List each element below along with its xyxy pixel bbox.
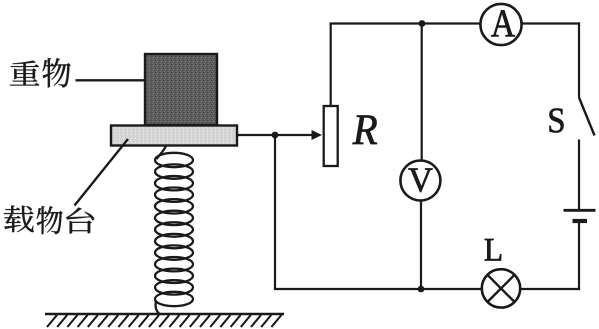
wire: right rail down to switch: [578, 22, 580, 97]
wire: ammeter to top right corner: [522, 22, 581, 24]
leader line from 载物台 to platform: [75, 139, 129, 206]
wire: bottom rail from left corner to lamp: [274, 288, 481, 290]
wire: battery down to bottom right corner: [578, 222, 580, 290]
node junction at (421,289): [418, 286, 425, 293]
label 重物 (weight): [10, 58, 71, 87]
platform 载物台: [111, 126, 237, 146]
label S: [550, 109, 564, 133]
wire: top rail: [330, 22, 481, 24]
wire: switch lower contact down to battery: [578, 140, 580, 210]
battery short plate (negative): [573, 219, 588, 223]
wire: bottom right corner to lamp: [520, 288, 580, 290]
leader line from 重物 to weight block: [76, 79, 156, 81]
ground hatching: [47, 315, 281, 327]
wire: platform to rheostat wiper arrow: [237, 130, 322, 140]
wire: voltmeter branch upper: [421, 24, 423, 162]
wire: rheostat top to top rail: [330, 24, 332, 107]
wire: voltmeter branch lower: [420, 201, 422, 290]
rheostat R body: [324, 106, 338, 166]
wire: junction down to bottom rail: [274, 135, 276, 289]
ground line: [45, 313, 284, 316]
spring: [155, 146, 193, 314]
node junction at (275,135): [272, 132, 279, 139]
battery long plate (positive): [564, 209, 596, 212]
switch S blade: [579, 98, 595, 136]
label R: [353, 116, 377, 144]
voltmeter V: [400, 161, 440, 201]
node junction at (422,23.5): [419, 20, 426, 27]
weight block: [145, 54, 217, 125]
lamp L: [482, 269, 520, 307]
ammeter A: [480, 4, 521, 45]
label L: [485, 239, 501, 260]
label 载物台 (platform): [4, 205, 94, 234]
